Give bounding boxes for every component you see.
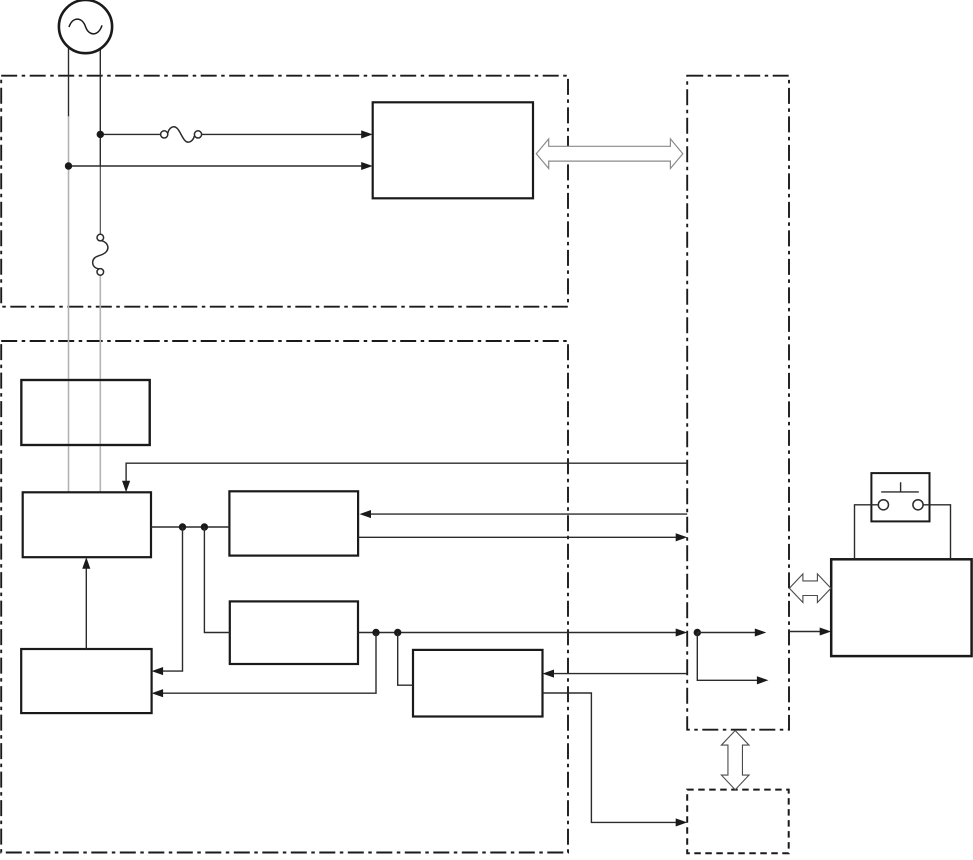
AC source symbol	[59, 0, 112, 53]
junction dot on neutral line	[65, 162, 72, 169]
hollow double arrow: U1 to controller column	[536, 139, 683, 169]
wire: dot D down to U7	[398, 633, 413, 686]
block U5: driver circuit	[21, 649, 151, 713]
arrowhead into U7 right	[543, 670, 555, 678]
arrowhead at controller edge	[676, 533, 688, 541]
wire: switch left terminal to controller	[855, 505, 879, 558]
block U7: reset circuit	[413, 650, 543, 717]
arrowhead into option box	[676, 818, 688, 826]
junction dot on live line	[97, 131, 104, 138]
block U2: noise filter	[21, 380, 149, 445]
dashed enclosure: power supply section (bottom left)	[1, 341, 568, 853]
block U1: high-voltage power supply (top)	[373, 102, 533, 198]
wire: controller to U7	[548, 673, 687, 675]
grey AC line N (right)	[99, 49, 101, 166]
arrowhead into U5 right (upper)	[152, 667, 164, 675]
junction dot A	[179, 523, 186, 530]
arrowhead into U1 (lower)	[361, 162, 373, 170]
wire: neutral line to U1	[69, 165, 367, 167]
block U2 border redraw (lines pass behind border)	[21, 380, 149, 445]
fuse F1	[161, 131, 168, 138]
switch terminal left	[878, 500, 888, 510]
block U8: engine controller (right)	[831, 559, 971, 656]
arrowhead into U1 (upper)	[361, 130, 373, 138]
block U4: DC-DC converter	[229, 491, 358, 555]
wire: switch right terminal to controller	[923, 505, 950, 558]
block U9: interlock switch box (top right)	[871, 473, 929, 521]
wire: live line to U1 with fuse	[100, 133, 161, 135]
wire: controller internal feed (upper)	[697, 632, 760, 634]
wire: U6 output bus to controller	[358, 632, 681, 634]
hollow double arrow: controller column to option box (vertical)	[721, 731, 749, 790]
wire: controller to U4	[365, 513, 687, 515]
arrowhead into U3 top	[122, 481, 130, 493]
wire: controller to U3 (remote on)	[126, 463, 687, 486]
arrowhead into U5 right (lower)	[152, 689, 164, 697]
block U6: regulator	[230, 601, 358, 664]
arrowhead into U3 bottom	[82, 557, 90, 569]
arrowhead at controller edge (bus)	[676, 628, 688, 636]
block U3: low-voltage power supply	[23, 492, 151, 557]
junction dot D	[394, 629, 401, 636]
junction dot C	[372, 629, 379, 636]
switch contact bar	[881, 482, 919, 492]
grey AC line L (left)	[68, 48, 70, 116]
power switch SW1 (in line)	[97, 234, 104, 241]
wire: U4 to controller	[358, 536, 681, 538]
dashed enclosure: controller column (tall, right)	[687, 76, 789, 730]
wire: U5 up to U3	[85, 563, 87, 649]
wire: dot C down to U5	[157, 633, 376, 694]
wire: controller column to engine controller	[789, 631, 825, 633]
dashed enclosure: small option box (bottom right)	[687, 790, 789, 854]
dashed enclosure: AC input section (top left)	[1, 76, 568, 307]
junction dot B	[201, 523, 208, 530]
wire: U3 output bus to U4	[151, 526, 229, 528]
switch terminal right	[913, 500, 923, 510]
junction dot inside controller column	[694, 629, 701, 636]
wire: dot B down to U6	[204, 527, 229, 633]
hollow double arrow: controller column to engine controller	[789, 574, 831, 603]
wire: dot A down to U5	[157, 527, 183, 671]
wire: controller internal feed (lower)	[697, 633, 762, 681]
arrowhead into U4 right	[360, 510, 372, 518]
wire: U7 output to option box	[543, 693, 682, 822]
